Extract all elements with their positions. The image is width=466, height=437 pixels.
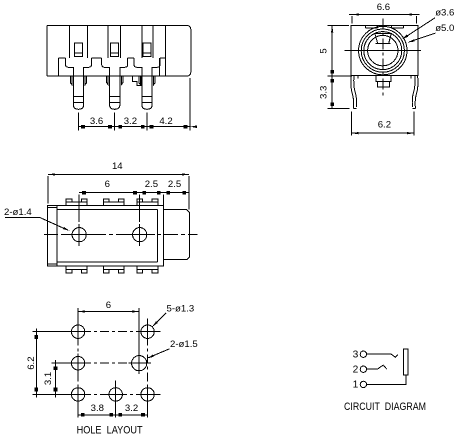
pin 2 terminal [353,364,367,375]
pin 1 terminal [353,380,367,391]
front view dimension 3.6 3.2 4.2 [79,78,198,131]
dimension 6.2 side view [352,112,414,136]
pin 1 shoulder and leg [66,58,92,109]
svg-text:ø3.6: ø3.6 [435,8,454,19]
front view body outline [47,25,191,76]
svg-text:2: 2 [353,364,359,375]
pin 3 wire with break contact [367,354,398,357]
jack keyway [375,34,391,44]
svg-text:4.2: 4.2 [159,116,172,127]
pin 2 slot [111,43,119,56]
svg-text:2-ø1.4: 2-ø1.4 [4,207,32,218]
pin 3 slot [143,43,151,56]
svg-text:3.1: 3.1 [43,372,54,385]
top view horizontal centerline [44,234,198,236]
svg-text:3.6: 3.6 [90,116,103,127]
side view bottom tab [376,76,391,88]
label diameter 5.0 [408,23,455,43]
svg-text:5: 5 [318,48,329,53]
svg-text:2.5: 2.5 [145,179,158,190]
svg-text:6.2: 6.2 [378,119,391,130]
top view inner wall [57,210,157,262]
pin 3 terminal [353,350,367,361]
svg-text:1: 1 [353,380,359,391]
svg-text:3.2: 3.2 [125,403,138,414]
top view barrel [163,210,189,260]
hole layout holes with crosshairs [68,322,157,405]
dimension 3.8 3.2 [78,403,148,417]
top view body outline [47,205,163,266]
svg-text:2-ø1.5: 2-ø1.5 [170,339,198,350]
svg-text:5-ø1.3: 5-ø1.3 [167,303,195,314]
svg-text:6.2: 6.2 [26,356,37,369]
label 5-dia1.3 [152,303,194,327]
svg-text:6: 6 [105,179,110,190]
svg-text:6: 6 [106,300,111,311]
dimension 6 2.5 2.5 [79,179,189,195]
label diameter 3.6 [402,8,455,40]
svg-text:CIRCUIT DIAGRAM: CIRCUIT DIAGRAM [344,401,426,413]
pin 1 slot [75,43,83,56]
side view body outline [351,26,418,76]
dimension 6 hole layout [78,300,139,356]
top view vertical extension lines [48,176,189,222]
svg-text:3.2: 3.2 [124,116,137,127]
plug sleeve symbol [403,349,408,375]
hole layout centerlines [64,319,161,408]
pin 1 crimp tabs [70,76,86,85]
svg-text:14: 14 [112,161,123,172]
svg-text:3.3: 3.3 [318,86,329,99]
svg-text:3.8: 3.8 [91,403,104,414]
svg-text:ø5.0: ø5.0 [435,23,454,34]
dimension 3.1 hole layout [43,360,69,398]
svg-text:HOLE LAYOUT: HOLE LAYOUT [77,425,143,437]
dimension 5 [318,26,349,76]
dimension 14 [48,161,189,175]
side view centerlines [345,18,421,98]
dimension 6.6 [349,2,420,23]
mold tab under body [132,76,141,86]
pin 2 shoulder and leg [102,58,128,109]
svg-text:6.6: 6.6 [377,2,390,13]
svg-text:2.5: 2.5 [168,179,181,190]
top view tabs [66,199,158,273]
pin 2 wire with spring contact [367,365,387,369]
pin 2 crimp tabs [107,76,123,85]
pin 3 crimp tabs [139,76,155,85]
front view interior walls [59,25,166,76]
jack barrel circles [359,26,407,74]
dimension 3.3 [318,76,352,108]
pin 3 shoulder and leg [134,58,160,109]
pin 1 wire to sleeve [367,375,406,385]
label 2-dia1.5 [147,339,198,359]
side view legs [351,76,418,109]
top view mounting holes 2-dia1.4 [64,224,156,246]
label 2-dia1.4 [4,207,70,231]
dimension 6.2 hole layout [26,328,69,397]
svg-text:3: 3 [353,350,359,361]
